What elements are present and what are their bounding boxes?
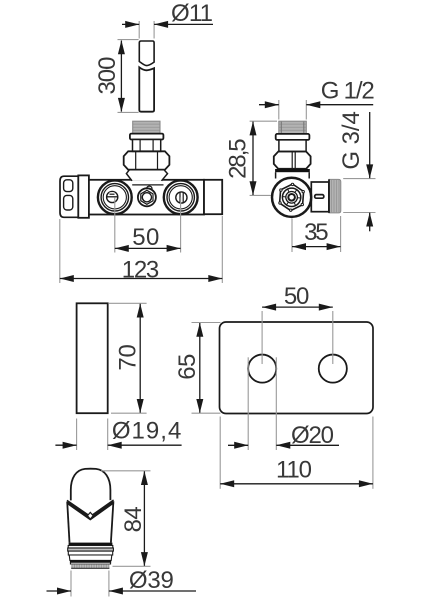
- svg-text:Ø20: Ø20: [291, 422, 334, 449]
- svg-text:28,5: 28,5: [225, 138, 252, 179]
- svg-text:G 1/2: G 1/2: [321, 78, 375, 105]
- svg-text:110: 110: [276, 457, 312, 484]
- svg-text:Ø39: Ø39: [129, 567, 174, 594]
- svg-text:123: 123: [122, 257, 160, 284]
- svg-text:Ø11: Ø11: [171, 0, 213, 27]
- svg-text:Ø19,4: Ø19,4: [112, 418, 182, 445]
- svg-text:84: 84: [120, 506, 147, 532]
- svg-text:35: 35: [304, 219, 329, 246]
- svg-text:50: 50: [284, 283, 310, 310]
- svg-text:65: 65: [174, 354, 201, 380]
- svg-text:50: 50: [132, 224, 159, 251]
- svg-text:300: 300: [94, 57, 121, 95]
- svg-text:G 3/4: G 3/4: [338, 111, 365, 170]
- svg-text:70: 70: [115, 344, 142, 371]
